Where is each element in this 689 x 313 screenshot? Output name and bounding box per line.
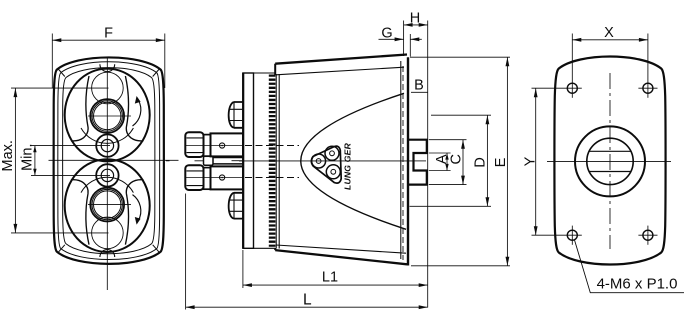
- svg-text:E: E: [493, 157, 509, 167]
- svg-text:X: X: [604, 25, 614, 41]
- svg-text:C: C: [448, 154, 464, 164]
- svg-text:L: L: [303, 292, 312, 309]
- svg-text:4-M6 x P1.0: 4-M6 x P1.0: [597, 276, 678, 293]
- svg-text:L1: L1: [322, 269, 338, 285]
- svg-text:LUNG GER: LUNG GER: [343, 142, 353, 190]
- svg-text:H: H: [410, 10, 420, 26]
- svg-text:B: B: [414, 77, 424, 93]
- svg-text:Max.: Max.: [0, 140, 16, 171]
- svg-text:Min.: Min.: [20, 143, 36, 170]
- svg-text:F: F: [104, 26, 113, 42]
- svg-text:G: G: [381, 25, 392, 41]
- svg-text:D: D: [473, 157, 489, 167]
- svg-text:Y: Y: [522, 156, 538, 166]
